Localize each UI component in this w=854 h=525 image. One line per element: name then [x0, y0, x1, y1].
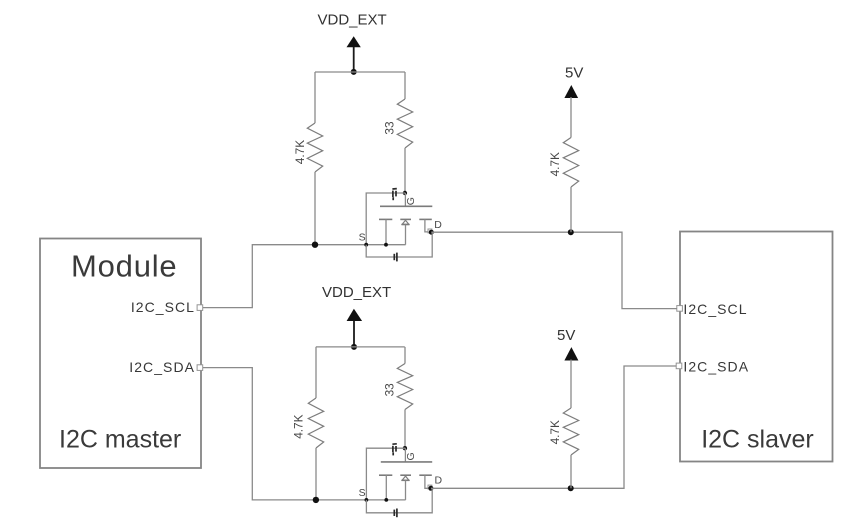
series element (bulk) ticks [394, 253, 397, 262]
wire I2C_SCL right (drain to slave) [431, 232, 677, 308]
svg-text:I2C_SCL: I2C_SCL [131, 299, 195, 315]
svg-text:I2C_SCL: I2C_SCL [683, 301, 747, 317]
svg-text:I2C_SDA: I2C_SDA [683, 358, 749, 374]
node drain Q2 dot [428, 486, 433, 491]
wire bulk loop Q1 [366, 232, 432, 257]
wire gate net Q2 [366, 448, 405, 500]
svg-text:5V: 5V [565, 65, 583, 82]
junction dot source loop 2 [365, 498, 369, 502]
svg-text:Module: Module [71, 249, 177, 284]
svg-text:I2C master: I2C master [59, 425, 181, 453]
resistor R1 4.7K [293, 72, 323, 245]
junction dot VDD bottom [351, 344, 357, 350]
power VDD_EXT (bottom) [322, 284, 391, 347]
resistor R2 33 [383, 72, 413, 193]
junction dot channel lead 2 [384, 498, 388, 502]
pin I2C_SCL (slave) [677, 301, 748, 317]
slave box [680, 232, 833, 462]
svg-text:VDD_EXT: VDD_EXT [318, 11, 387, 28]
svg-text:33: 33 [382, 383, 396, 397]
wire VDD rail top [315, 71, 405, 73]
wire I2C_SCL left (module to Q1 source) [203, 245, 406, 308]
transistor Q2 [359, 448, 443, 500]
wire I2C_SDA right (drain to slave) [431, 366, 676, 488]
svg-text:5V: 5V [557, 327, 575, 344]
wire I2C_SDA left (module to Q2 source) [203, 368, 406, 500]
resistor R5 33 [382, 347, 412, 448]
svg-text:D: D [434, 219, 442, 231]
svg-text:S: S [359, 487, 366, 499]
pin I2C_SCL (module) [131, 299, 203, 315]
module box [40, 239, 201, 469]
svg-text:VDD_EXT: VDD_EXT [322, 284, 391, 301]
pin square drain Q1 [428, 229, 432, 233]
junction dot R4/source rail [313, 497, 319, 503]
wire gate net Q1 [366, 193, 405, 245]
series element (gate 2) ticks [392, 444, 396, 456]
junction dot 5V pullup bottom [568, 485, 574, 491]
power VDD_EXT (top) [318, 11, 387, 72]
resistor R6 4.7K [548, 360, 579, 489]
svg-text:4.7K: 4.7K [548, 420, 562, 444]
node gate Q1 junction dot [403, 191, 407, 195]
svg-text:I2C_SDA: I2C_SDA [129, 359, 195, 375]
svg-text:I2C slaver: I2C slaver [701, 426, 814, 454]
transistor Q1 [359, 193, 443, 245]
junction dot 5V pullup top [568, 229, 574, 235]
junction dot channel lead [384, 243, 388, 247]
pin I2C_SDA (module) [129, 359, 202, 375]
junction dot source loop [364, 243, 368, 247]
series element (bulk 2) ticks [394, 509, 397, 518]
pin square drain Q2 [428, 485, 432, 489]
svg-text:4.7K: 4.7K [548, 152, 562, 176]
svg-text:33: 33 [383, 121, 397, 135]
node drain Q1 dot [429, 230, 434, 235]
svg-text:4.7K: 4.7K [293, 140, 307, 164]
resistor R3 4.7K [548, 97, 579, 232]
svg-text:G: G [405, 452, 417, 460]
svg-text:4.7K: 4.7K [291, 414, 305, 438]
junction dot VDD top [351, 69, 357, 75]
node gate Q2 junction dot [403, 446, 407, 450]
junction dot R1/source rail [312, 242, 318, 248]
series element (gate) ticks [392, 189, 396, 201]
wire VDD rail bottom [316, 346, 405, 348]
pin I2C_SDA (slave) [676, 358, 749, 374]
power 5V (top) [564, 65, 583, 99]
resistor R4 4.7K [291, 347, 323, 500]
power 5V (bottom) [557, 327, 578, 360]
svg-text:D: D [435, 475, 443, 487]
svg-text:S: S [359, 232, 366, 244]
svg-text:G: G [405, 197, 417, 205]
wire bulk loop Q2 [366, 488, 432, 513]
